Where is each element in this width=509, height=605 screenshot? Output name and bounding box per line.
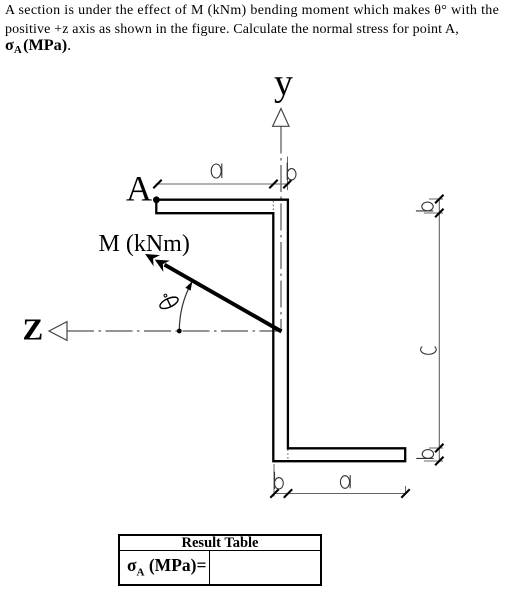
- dimension letter b (top): [287, 163, 296, 180]
- extension line web left edge (bottom): [273, 464, 275, 497]
- svg-text:A: A: [126, 168, 152, 208]
- dimension letter a (top): [211, 164, 222, 179]
- point A dot: [153, 196, 160, 203]
- dimension line c/b (right): [438, 199, 440, 461]
- dot at arc base on z-axis: [177, 329, 182, 334]
- dimension letter a (bottom): [340, 475, 350, 488]
- dimension letter c rotated (right middle): [421, 347, 437, 355]
- dimension line b/a (bottom): [274, 493, 407, 495]
- moment arrow M shaft: [165, 265, 282, 332]
- svg-text:Z: Z: [23, 312, 44, 347]
- y-axis arrowhead (open triangle): [273, 109, 289, 127]
- web right edge dotted through bottom flange: [287, 449, 289, 460]
- dimension letter b rotated (right bottom): [416, 450, 433, 459]
- z-axis dash-dot line: [67, 330, 281, 332]
- tick marks right dimension: [435, 195, 443, 465]
- problem statement text: [5, 1, 509, 59]
- moment arrow double head: [145, 254, 160, 266]
- dimension line a/b (top): [156, 183, 290, 185]
- tick marks top dimension: [153, 180, 291, 188]
- Z-section outline: [156, 200, 405, 462]
- extension line flange right (bottom): [405, 486, 407, 495]
- arc arrowhead: [185, 281, 192, 290]
- result table: [118, 534, 322, 586]
- web left edge dotted through top flange: [272, 201, 274, 212]
- svg-text:M (kNm): M (kNm): [99, 231, 190, 257]
- dimension letter b (bottom): [275, 472, 284, 489]
- z-axis arrowhead (open triangle): [49, 322, 67, 341]
- svg-text:y: y: [274, 62, 293, 104]
- extension line web right edge (top): [287, 157, 289, 191]
- dimension letter b rotated (right top): [416, 202, 433, 211]
- extension lines (right dim): [429, 198, 443, 200]
- y-axis dash-dot line: [280, 127, 282, 332]
- label theta with degree (rotated): [156, 290, 180, 311]
- tick marks bottom dimension: [270, 489, 409, 497]
- theta angle arc: [179, 283, 191, 331]
